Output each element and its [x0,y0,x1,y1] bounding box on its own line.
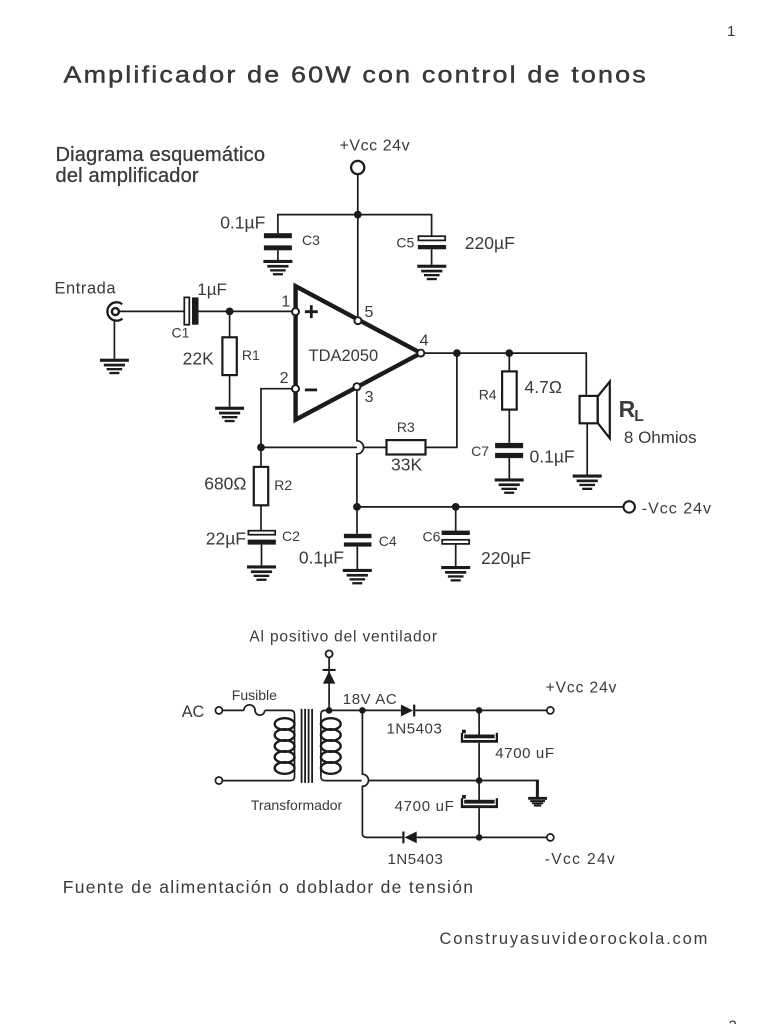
capacitor C2 [248,531,275,535]
wire junction to R1 [229,311,231,337]
wire C9 leads [478,781,480,838]
svg-text:C1: C1 [172,325,190,341]
pin 2 [292,385,299,392]
terminal -Vcc [624,501,635,512]
wire mid rail [321,777,539,781]
svg-text:2: 2 [280,370,289,387]
svg-text:C4: C4 [379,533,397,549]
capacitor C8 4700uF [461,730,498,743]
diode D2 1N5403 [402,832,404,844]
svg-text:18V AC: 18V AC [343,691,397,708]
resistor R1 [222,337,236,375]
svg-text:C5: C5 [396,234,414,250]
wire C6 to ground [455,544,457,566]
wire Vcc horizontal rail [278,215,432,237]
terminal +Vcc power [547,707,554,714]
pin 3 [353,383,360,390]
svg-text:R2: R2 [274,477,292,493]
terminal AC bottom [215,777,222,784]
svg-text:0.1µF: 0.1µF [530,446,575,466]
svg-text:1N5403: 1N5403 [387,720,443,737]
capacitor C9 4700uF [461,795,498,808]
terminal +Vcc [351,161,364,174]
capacitor C1 [184,297,189,324]
transformer T1 primary coil [275,718,295,774]
svg-text:Al positivo del ventilador: Al positivo del ventilador [249,629,437,646]
wire -Vcc rail [357,506,623,508]
wire C4 to ground [356,547,358,569]
node fan junction [326,707,333,714]
capacitor C4 [344,534,372,538]
wire AC to fuse [223,709,244,711]
svg-text:C6: C6 [422,528,440,544]
ground speaker [573,475,602,491]
svg-text:680Ω: 680Ω [204,473,246,493]
wire input to C1 [120,310,185,312]
wire +Vcc vertical to pin 5 [357,174,359,317]
svg-text:5: 5 [365,304,374,321]
node Vcc junction [354,211,362,219]
svg-text:C3: C3 [302,232,320,248]
wire D2 to -Vcc terminal [417,836,547,838]
diode D1 1N5403 [401,705,413,717]
wire output to R4 [508,353,510,371]
node feedback junction [257,444,265,452]
wire secondary top rail 18V AC [321,710,401,776]
svg-text:1: 1 [727,23,735,40]
ground C5 [417,265,446,281]
svg-text:1N5403: 1N5403 [388,851,444,868]
ground mid rail [528,797,547,807]
fuse F1 [244,705,265,715]
svg-text:R3: R3 [397,419,415,435]
speaker RL box [580,396,598,423]
node C6 junction [452,503,460,511]
node output junction R3 [453,349,461,357]
wire C2 to ground [261,545,263,566]
wire R4 to C7 [508,410,510,443]
svg-text:R1: R1 [242,347,260,363]
node C8 top junction [476,707,483,714]
ground C2 [247,565,276,581]
wire D1 to +Vcc terminal [415,709,547,711]
node C9 bottom junction [476,834,483,841]
wire feedback node to R2 [260,447,262,467]
wire fuse to primary [223,710,295,780]
svg-text:3: 3 [365,389,374,406]
svg-text:Fusible: Fusible [232,687,277,703]
pin 1 [292,308,299,315]
ground input [100,359,129,375]
ground C6 [441,566,470,582]
svg-text:22µF: 22µF [206,528,246,548]
node input junction [226,308,234,316]
svg-text:AC: AC [182,703,205,721]
svg-text:+Vcc 24v: +Vcc 24v [546,680,618,697]
svg-text:4.7Ω: 4.7Ω [525,377,562,397]
wire C5 to ground [431,249,433,264]
transformer T1 secondary coil [321,718,341,774]
wire pin 3 down with hop [357,390,364,507]
svg-text:del amplificador: del amplificador [56,165,199,187]
wire pin 2 to feedback node [261,389,292,448]
wire connector to ground [113,321,115,359]
svg-text:33K: 33K [391,454,422,474]
wire C1 to pin 1 [199,310,293,312]
transformer T1 core [302,709,313,783]
resistor R4 [502,371,517,409]
op-amp minus sign [305,388,317,391]
svg-text:TDA2050: TDA2050 [309,347,379,365]
pin 5 [354,317,361,324]
wire C7 to ground [508,457,510,478]
wire R2 to C2 [260,505,262,530]
svg-text:R4: R4 [479,387,497,403]
wire doubler drop with hop [362,710,402,837]
node -Vcc rail pin3 junction [353,503,361,511]
ground C7 [495,478,524,494]
svg-text:22K: 22K [183,348,214,368]
svg-text:4: 4 [420,332,429,349]
svg-text:220µF: 220µF [481,548,531,568]
svg-text:8 Ohmios: 8 Ohmios [624,428,697,447]
wire C8 leads [478,710,480,780]
wire speaker to ground [586,423,588,474]
svg-text:0.1µF: 0.1µF [299,548,344,568]
capacitor C7 [495,443,523,448]
wire fan branch [328,658,330,711]
ground R1 [215,407,244,423]
capacitor C3 [264,233,292,238]
svg-text:Diagrama esquemático: Diagrama esquemático [56,144,266,166]
ground C4 [343,569,372,585]
svg-text:2: 2 [729,1018,737,1024]
wire rail to C4 [356,507,358,534]
capacitor C6 [442,531,470,535]
svg-text:C2: C2 [282,528,300,544]
node mid rail junction [476,777,483,784]
pin 4 [417,350,424,357]
node output junction R4 [505,349,513,357]
svg-text:Entrada: Entrada [55,279,117,297]
op-amp U1 triangle [296,286,421,420]
svg-text:Amplificador de 60W con contro: Amplificador de 60W con control de tonos [64,62,648,88]
node doubler junction [359,707,366,714]
wire C3 to ground [277,250,279,260]
svg-text:+Vcc 24v: +Vcc 24v [340,138,411,155]
wire output rail [424,353,586,396]
svg-text:Construyasuvideorockola.com: Construyasuvideorockola.com [440,930,710,948]
svg-text:4700 uF: 4700 uF [395,798,455,815]
svg-text:0.1µF: 0.1µF [220,213,265,233]
terminal fan [326,650,333,657]
resistor R2 [254,467,268,505]
capacitor C5 [418,236,445,240]
svg-text:L: L [634,408,643,425]
svg-text:R: R [619,396,636,422]
diode D3 (fan, up) [323,669,336,671]
svg-text:Transformador: Transformador [251,797,343,813]
connector input jack [107,302,122,320]
svg-text:C7: C7 [471,443,489,459]
svg-text:1µF: 1µF [197,280,227,299]
resistor R3 [387,440,426,454]
svg-text:Fuente de alimentación o dobla: Fuente de alimentación o doblador de ten… [63,877,474,897]
speaker RL cone [598,382,610,439]
ground C3 [263,260,292,276]
wire R1 to ground [229,375,231,407]
svg-text:-Vcc 24v: -Vcc 24v [545,851,617,868]
wire rail to C6 [455,507,457,531]
terminal -Vcc power [547,834,554,841]
svg-text:220µF: 220µF [465,233,515,253]
svg-text:1: 1 [281,293,290,310]
op-amp plus sign [305,305,318,318]
svg-text:-Vcc 24v: -Vcc 24v [642,501,712,518]
svg-text:4700 uF: 4700 uF [495,745,554,762]
terminal AC top [215,707,222,714]
wire feedback to R3 (with hop gap) [261,446,387,448]
wire R3 to output [426,353,457,447]
